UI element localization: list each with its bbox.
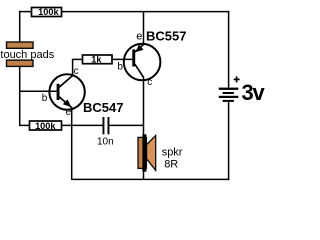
resistor 100k top (32, 7, 62, 17)
resistor 100k lower (30, 121, 62, 131)
touch pad lower (7, 60, 34, 66)
svg-text:100k: 100k (35, 121, 56, 131)
wire speaker to bottom rail (143, 170, 145, 180)
wire left vertical lower (pad to 100k) (19, 65, 21, 126)
wire BC547 emitter down to bottom rail (71, 107, 73, 180)
wire BC547 collector up (72, 59, 74, 76)
wire bottom rail (72, 178, 230, 180)
svg-text:e: e (136, 30, 142, 42)
wire 1k to BC557 base (112, 58, 134, 60)
wire BC557 collector down to speaker (143, 77, 145, 137)
wire right vertical to battery + (228, 11, 230, 88)
svg-text:100k: 100k (38, 7, 59, 17)
wire capacitor to speaker branch (109, 124, 144, 126)
svg-text:touch pads: touch pads (0, 49, 54, 61)
transistor Q2 BC557 (124, 44, 161, 81)
transistor Q1 BC547 (49, 74, 84, 109)
svg-text:b: b (42, 93, 48, 104)
wire left to resistor 100k lower (20, 124, 30, 126)
battery B1 (two cells) (219, 88, 239, 102)
svg-text:c: c (147, 77, 152, 88)
svg-text:1k: 1k (91, 54, 102, 64)
svg-text:BC547: BC547 (83, 100, 123, 115)
svg-text:b: b (117, 61, 123, 72)
wire BC547 collector to 1k (72, 58, 83, 60)
wire battery - to bottom rail (228, 101, 230, 180)
svg-text:3v: 3v (242, 80, 266, 105)
svg-text:10n: 10n (97, 136, 114, 147)
resistor 1k (83, 54, 113, 64)
speaker LS1 (138, 134, 156, 171)
touch pad upper (7, 42, 34, 48)
svg-text:8R: 8R (164, 159, 178, 171)
wire left vertical upper (to pad) (19, 11, 21, 44)
wire BC557 emitter up to top rail (143, 12, 145, 45)
svg-text:e: e (66, 107, 72, 118)
svg-text:BC557: BC557 (146, 28, 186, 43)
wire mid horizontal: 100k to capacitor (61, 124, 103, 126)
wire top-left horizontal (19, 11, 32, 13)
capacitor 10n (103, 117, 110, 134)
svg-text:spkr: spkr (162, 147, 183, 159)
battery + polarity mark (234, 76, 240, 82)
svg-text:c: c (74, 66, 79, 77)
wire top rail (61, 11, 229, 13)
wire BC547 base (20, 90, 58, 92)
